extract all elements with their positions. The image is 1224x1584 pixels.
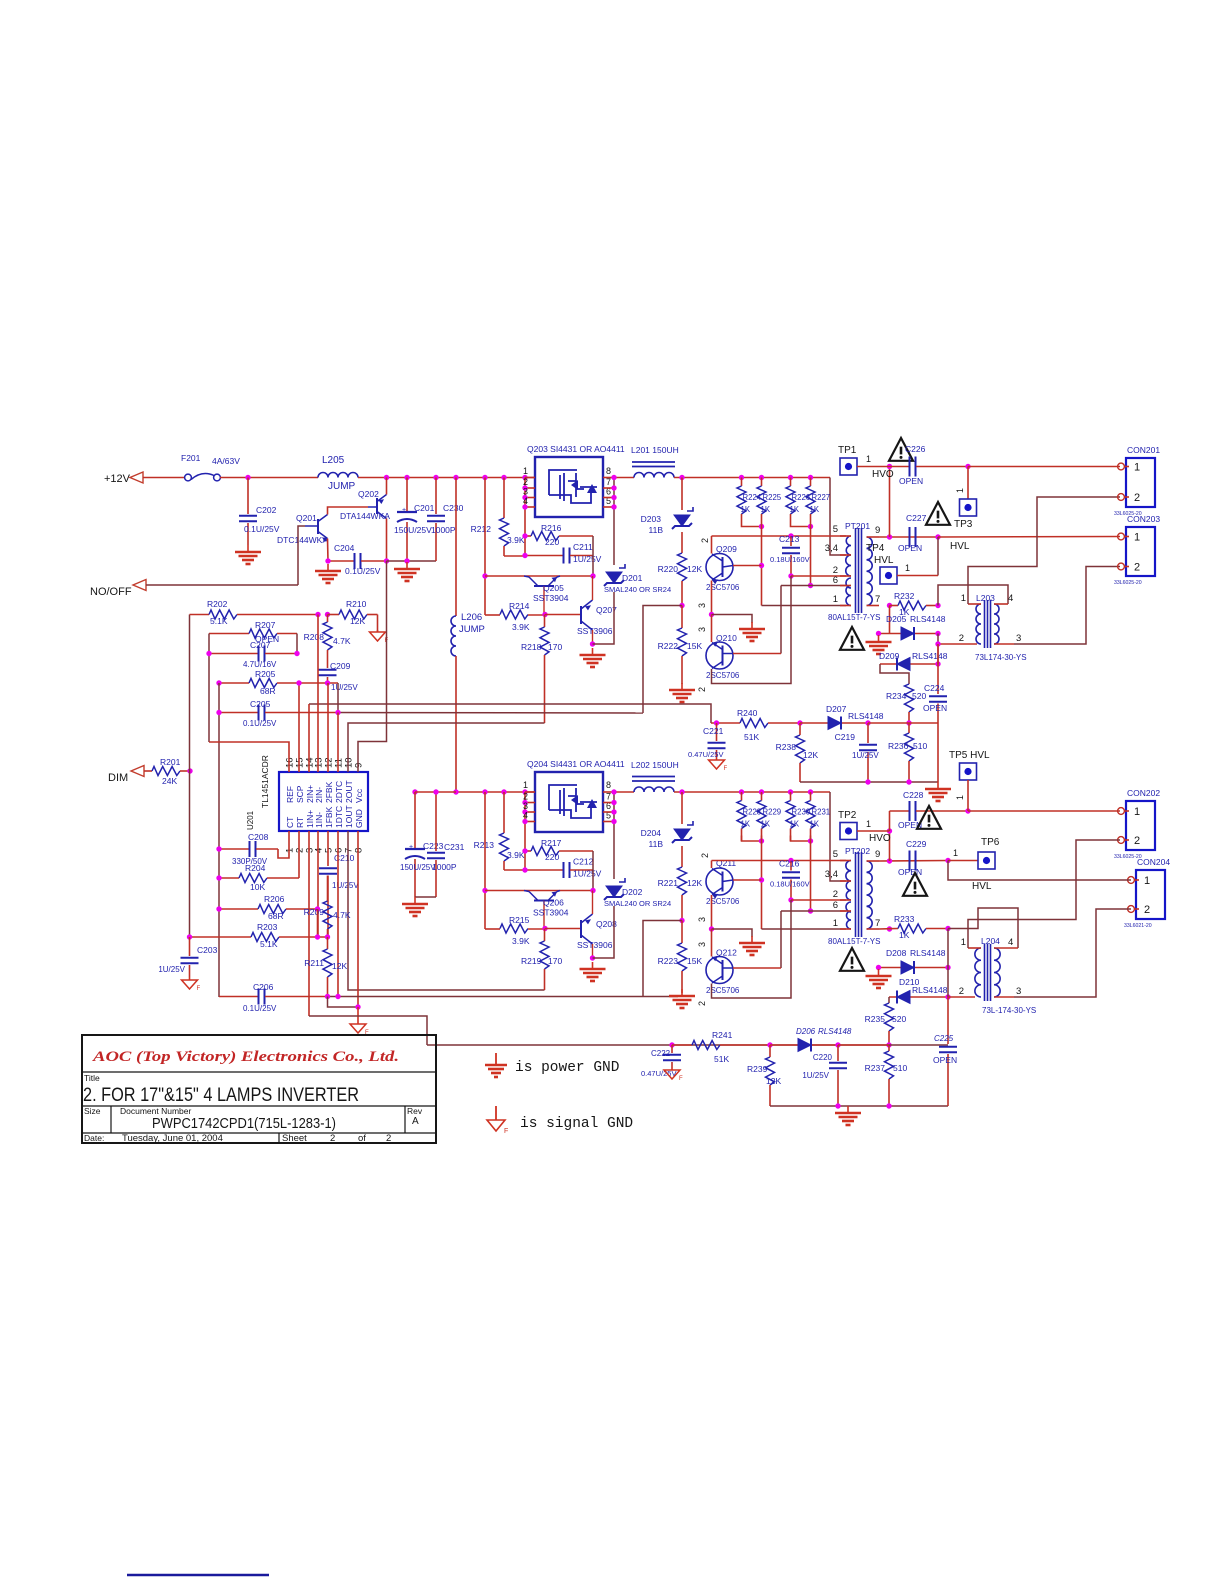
svg-text:2FBK: 2FBK xyxy=(324,781,334,803)
test point TP2 xyxy=(840,823,857,840)
svg-text:D202: D202 xyxy=(622,887,643,897)
resistor R234 xyxy=(905,684,914,712)
svg-text:1000P: 1000P xyxy=(431,525,456,535)
svg-text:C212: C212 xyxy=(573,857,594,867)
svg-text:R202: R202 xyxy=(207,599,228,609)
svg-text:1: 1 xyxy=(833,918,838,929)
ground below Q207 xyxy=(592,648,594,655)
node R202 right / pin13 col xyxy=(315,612,320,617)
wire TP2 to riser xyxy=(857,830,890,832)
svg-text:3,4: 3,4 xyxy=(825,543,838,554)
svg-text:1: 1 xyxy=(523,466,528,476)
input arrow +12V xyxy=(130,472,143,483)
svg-text:C219: C219 xyxy=(835,732,856,742)
node C220 bottom xyxy=(835,1103,840,1108)
svg-text:OPEN: OPEN xyxy=(899,476,923,486)
wire mid gnd tap xyxy=(712,615,753,624)
node railB-R229 xyxy=(759,789,764,794)
svg-text:68R: 68R xyxy=(260,686,276,696)
capacitor C212 xyxy=(525,869,563,871)
svg-text:10K: 10K xyxy=(250,882,265,892)
node C204 right xyxy=(384,558,389,563)
svg-text:RLS4148: RLS4148 xyxy=(912,651,948,661)
transformer L204 left winding xyxy=(975,948,981,997)
wire pin5 row xyxy=(712,535,847,537)
wire L203 pin2 row xyxy=(938,643,977,645)
wire left rail column x189 xyxy=(189,615,191,938)
node C208 left xyxy=(216,846,221,851)
resistor R208 xyxy=(327,615,329,623)
svg-text:R240: R240 xyxy=(737,708,758,718)
node C219 bottom xyxy=(865,779,870,784)
diode D206 xyxy=(770,1044,798,1046)
svg-text:CON203: CON203 xyxy=(1127,514,1160,524)
capacitor C228 OPEN xyxy=(890,810,910,812)
node HVL after C227 xyxy=(935,534,940,539)
node pin8 row xyxy=(355,1004,360,1009)
wire Q212 base stub xyxy=(733,967,781,969)
transformer L203 core xyxy=(984,600,986,648)
node R205 right corner xyxy=(337,683,339,713)
wire Q207 base xyxy=(545,614,581,616)
wire R231 col to pin6 rowB xyxy=(810,836,812,912)
warning triangle below C229 xyxy=(903,873,927,896)
svg-text:RLS4148: RLS4148 xyxy=(818,1027,852,1036)
svg-text:D206: D206 xyxy=(796,1027,816,1036)
svg-text:C227: C227 xyxy=(906,513,927,523)
svg-text:R231: R231 xyxy=(812,808,831,817)
svg-text:C206: C206 xyxy=(253,982,274,992)
svg-text:1: 1 xyxy=(1134,532,1140,544)
svg-text:520: 520 xyxy=(892,1014,906,1024)
wire rail to PT201 pin3-4 xyxy=(830,478,846,556)
node Q204 pin6 col xyxy=(611,809,616,814)
warning triangle below PT201 xyxy=(840,627,864,650)
wire Q201 emitter to C204 xyxy=(327,539,330,562)
svg-text:R217: R217 xyxy=(541,838,562,848)
node R239 top xyxy=(767,1042,772,1047)
node C205 right pin11 xyxy=(335,710,340,715)
svg-text:C220: C220 xyxy=(813,1053,833,1062)
Q204 pin stubs left xyxy=(525,791,535,793)
node railB-R228 xyxy=(739,789,744,794)
node pin15-R205 xyxy=(296,680,301,685)
svg-text:Sheet: Sheet xyxy=(282,1133,307,1144)
svg-text:4A/63V: 4A/63V xyxy=(212,456,240,466)
transistor Q209 xyxy=(706,554,733,581)
node Q204 pin4 xyxy=(522,819,527,824)
node Q203 pin4 xyxy=(522,504,527,509)
U201 pin14 wire 2IN+ xyxy=(308,704,310,772)
node pin9 riserB xyxy=(887,858,892,863)
svg-text:2: 2 xyxy=(1134,562,1140,574)
diode D208 xyxy=(901,961,914,974)
wire Q212 emitter return xyxy=(712,900,792,998)
svg-text:R239: R239 xyxy=(747,1064,768,1074)
node C205 left xyxy=(216,710,221,715)
svg-text:68R: 68R xyxy=(268,911,284,921)
svg-text:1U/25V: 1U/25V xyxy=(802,1071,829,1080)
U201 pin8 wire GND xyxy=(357,831,359,1007)
wire Q211 collector to pin5 rowB xyxy=(711,861,713,869)
wire D208-D210 col xyxy=(947,968,949,998)
wire fuse to L205 xyxy=(220,477,318,479)
svg-text:2: 2 xyxy=(386,1133,391,1144)
capacitor C206 xyxy=(219,996,258,998)
node C207 right xyxy=(294,651,299,656)
node railB-R215col xyxy=(482,789,487,794)
resistor R232 xyxy=(890,605,899,607)
node rail-D203 xyxy=(679,475,684,480)
svg-text:SST3906: SST3906 xyxy=(577,940,613,950)
svg-text:4: 4 xyxy=(1008,593,1013,604)
node R203-R211 xyxy=(325,934,330,939)
transformer L204 right winding xyxy=(994,948,1000,997)
U201 pin7 wire 1OUT xyxy=(348,831,545,990)
svg-text:C224: C224 xyxy=(924,683,945,693)
U201 pin2 wire RT xyxy=(298,831,300,878)
svg-text:R241: R241 xyxy=(712,1030,733,1040)
capacitor C227 OPEN xyxy=(909,527,911,547)
test point TP3 xyxy=(967,467,969,500)
node Q207 collector / D201 xyxy=(590,641,595,646)
resistor R214 xyxy=(485,614,500,616)
transformer PT202 right winding xyxy=(867,861,873,929)
node railB-pin1 xyxy=(522,789,527,794)
wire rail to L201 xyxy=(617,477,634,479)
svg-text:15K: 15K xyxy=(687,956,702,966)
svg-text:0.47U/25V: 0.47U/25V xyxy=(688,750,723,759)
node R205-C209-pin12 xyxy=(325,680,330,685)
node R215 right / Q208 base xyxy=(542,926,547,931)
U201 pin4 wire 1IN- xyxy=(317,831,319,937)
svg-text:8: 8 xyxy=(606,466,611,476)
wire R212 bottom to C211 row xyxy=(504,555,525,557)
node rail-pin1 xyxy=(522,475,527,480)
capacitor C208 xyxy=(219,848,249,850)
svg-text:R232: R232 xyxy=(894,591,915,601)
node C212 left xyxy=(522,867,527,872)
wire D207 row to R234 xyxy=(868,722,938,724)
title block frame xyxy=(82,1035,436,1143)
resistor R230 xyxy=(790,792,792,801)
capacitor C201 xyxy=(406,478,408,513)
svg-text:220: 220 xyxy=(545,852,559,862)
node railB-R231 xyxy=(808,789,813,794)
resistor R217 xyxy=(525,850,531,852)
test point TP5 xyxy=(960,763,977,780)
node C213 top xyxy=(788,533,793,538)
wire left col x219 xyxy=(218,683,220,997)
svg-text:C226: C226 xyxy=(905,444,926,454)
svg-text:L202 150UH: L202 150UH xyxy=(631,760,679,770)
wire HVL to CON203 pin1 xyxy=(938,536,1120,539)
svg-text:SST3904: SST3904 xyxy=(533,908,569,918)
node Q204 pin8 col xyxy=(611,789,616,794)
svg-text:Q210: Q210 xyxy=(716,633,737,643)
svg-text:0.1U/25V: 0.1U/25V xyxy=(345,566,381,576)
resistor R216 xyxy=(525,535,531,537)
svg-text:DTC144WKA: DTC144WKA xyxy=(277,535,328,545)
wire return row 782 xyxy=(800,781,938,783)
svg-text:Q209: Q209 xyxy=(716,544,737,554)
svg-text:SMAL240 OR SR24: SMAL240 OR SR24 xyxy=(604,585,671,594)
U201 pin13 wire 2IN- xyxy=(317,615,319,773)
svg-text:3: 3 xyxy=(1016,633,1021,644)
node R238 top xyxy=(797,720,802,725)
wire TP4 riser xyxy=(937,537,939,576)
capacitor C209 xyxy=(319,669,337,671)
wire R225 col to Q209 base xyxy=(761,521,763,606)
ground mid tap B xyxy=(751,936,753,943)
svg-text:12K: 12K xyxy=(766,1076,781,1086)
wire divider tap to U201 area xyxy=(643,606,682,714)
svg-text:L201 150UH: L201 150UH xyxy=(631,445,679,455)
ground on return row xyxy=(847,1106,849,1113)
wire TP5 stub xyxy=(967,780,969,811)
svg-text:2: 2 xyxy=(697,687,707,692)
wire Q210 base riser xyxy=(780,586,782,654)
svg-text:11B: 11B xyxy=(649,525,664,535)
svg-text:80AL15T-7-YS: 80AL15T-7-YS xyxy=(828,937,880,946)
wire Q208 base xyxy=(545,928,581,930)
transistor Q212 xyxy=(706,957,733,984)
svg-text:1DTC: 1DTC xyxy=(334,806,344,828)
node Q209-Q210 mid xyxy=(709,612,714,617)
node C204 left xyxy=(325,558,330,563)
U201 pin11 wire 2DTC xyxy=(337,713,339,773)
svg-text:Size: Size xyxy=(84,1106,101,1116)
node L203 pin2 row xyxy=(935,641,940,646)
wire mid gnd tap B xyxy=(712,929,753,937)
svg-text:R215: R215 xyxy=(509,915,530,925)
wire HVO to CON201 pin1 xyxy=(968,466,1120,468)
wire Q205 collector row xyxy=(485,575,593,577)
ground below D205 left xyxy=(878,635,880,642)
wire Q202 emitter to rail xyxy=(386,478,388,495)
node C201 bottom xyxy=(404,558,409,563)
svg-text:510: 510 xyxy=(913,741,927,751)
svg-text:3.9K: 3.9K xyxy=(512,936,530,946)
node C219 top xyxy=(865,720,870,725)
resistor R223 xyxy=(681,921,683,944)
svg-text:1U/25V: 1U/25V xyxy=(332,881,359,890)
svg-text:OPEN: OPEN xyxy=(923,703,947,713)
svg-text:Q205: Q205 xyxy=(543,583,564,593)
node railB-L206 xyxy=(453,789,458,794)
wire Q208 collector down xyxy=(592,944,594,958)
node Q211 base xyxy=(759,877,764,882)
node R233 right xyxy=(945,926,950,931)
svg-text:1: 1 xyxy=(905,563,910,573)
wire L201 to rail junction xyxy=(674,477,830,479)
wire Q212 base riser xyxy=(780,911,782,968)
svg-text:Tuesday, June 01, 2004: Tuesday, June 01, 2004 xyxy=(122,1133,223,1144)
wire D208 row xyxy=(879,967,949,969)
inductor L202 xyxy=(634,787,674,792)
svg-text:C229: C229 xyxy=(906,839,927,849)
svg-text:R208: R208 xyxy=(304,632,325,642)
wire Q206 collector row xyxy=(485,890,593,892)
svg-text:2: 2 xyxy=(523,477,528,487)
wire L203 pin3 to CON203 pin2 xyxy=(1014,567,1120,645)
wire D209 left to R234 xyxy=(880,664,909,684)
node R206 left xyxy=(216,906,221,911)
wire C228 riser xyxy=(889,811,891,831)
diode D205 xyxy=(901,627,914,640)
IC U201 box xyxy=(279,772,368,831)
wire D201 bottom link xyxy=(593,592,615,644)
resistor R209 xyxy=(327,876,329,902)
node Q203 pin8 col xyxy=(611,475,616,480)
svg-text:2DTC: 2DTC xyxy=(334,781,344,803)
svg-text:0.1U/25V: 0.1U/25V xyxy=(244,524,280,534)
node C222 top xyxy=(669,1042,674,1047)
wire Q209 base stub xyxy=(733,565,762,567)
node R206 right xyxy=(315,906,320,911)
resistor R212 xyxy=(503,478,505,519)
resistor R224 xyxy=(741,478,743,487)
svg-text:51K: 51K xyxy=(744,732,759,742)
node D205 right xyxy=(935,631,940,636)
capacitor C213 xyxy=(790,536,792,546)
ground at return row end xyxy=(937,782,939,789)
resistor R211 xyxy=(327,937,329,949)
wire rail2 xyxy=(427,1044,948,1046)
Q203 pin stubs left xyxy=(525,477,535,479)
svg-text:0.1U/25V: 0.1U/25V xyxy=(243,719,277,728)
svg-text:6: 6 xyxy=(833,575,838,586)
bracket R207-C207 right xyxy=(296,634,298,654)
svg-text:R214: R214 xyxy=(509,601,530,611)
svg-text:8: 8 xyxy=(606,780,611,790)
svg-text:+: + xyxy=(402,507,406,514)
wire C223-C231 gnd join xyxy=(415,896,436,898)
svg-text:3: 3 xyxy=(697,942,707,947)
svg-text:SST3904: SST3904 xyxy=(533,593,569,603)
wire R232 pin7 node xyxy=(887,603,892,608)
wire R233 to L204 pin4 bracket xyxy=(948,908,1018,948)
wire railB to PT202 pin3-4 xyxy=(830,792,846,881)
fuse F201 xyxy=(185,474,192,481)
L203 pin stubs xyxy=(968,603,981,605)
dual mosfet Q203 xyxy=(535,457,603,517)
svg-text:1K: 1K xyxy=(761,505,771,514)
node D210 right xyxy=(945,994,950,999)
svg-text:1U/25V: 1U/25V xyxy=(852,751,879,760)
svg-text:D205: D205 xyxy=(886,614,907,624)
svg-text:1: 1 xyxy=(1144,875,1150,887)
svg-text:RLS4148: RLS4148 xyxy=(912,985,948,995)
svg-text:RT: RT xyxy=(295,817,305,828)
input arrow DIM xyxy=(131,766,144,777)
svg-text:1FBK: 1FBK xyxy=(324,806,334,828)
svg-text:Q206: Q206 xyxy=(543,898,564,908)
wire railB col to Q206 row xyxy=(484,792,486,929)
svg-text:5.1K: 5.1K xyxy=(210,616,228,626)
svg-text:TP5 HVL: TP5 HVL xyxy=(949,750,990,761)
node Q209 base xyxy=(759,563,764,568)
node R220-R222 divider xyxy=(679,603,684,608)
wire R210 right to signal gnd xyxy=(377,615,379,633)
svg-text:Q202: Q202 xyxy=(358,489,379,499)
diode D201 (SMAL240) xyxy=(606,572,622,583)
svg-text:12K: 12K xyxy=(332,961,347,971)
resistor R201 xyxy=(144,770,152,772)
svg-text:1: 1 xyxy=(961,937,966,948)
svg-text:RLS4148: RLS4148 xyxy=(910,614,946,624)
node D208 right xyxy=(945,965,950,970)
svg-text:CON201: CON201 xyxy=(1127,445,1160,455)
node rail-C202 xyxy=(245,475,250,480)
node R237 bottom xyxy=(886,1103,891,1108)
resistor R206 xyxy=(219,908,258,910)
svg-text:220: 220 xyxy=(545,537,559,547)
svg-text:2. FOR 17"&15" 4 LAMPS INVERT: 2. FOR 17"&15" 4 LAMPS INVERTER xyxy=(83,1085,359,1106)
capacitor C211 xyxy=(525,555,563,557)
svg-text:3: 3 xyxy=(697,627,707,632)
node R232 right xyxy=(935,603,940,608)
svg-text:SST3906: SST3906 xyxy=(577,626,613,636)
wire PT201 pin6 row xyxy=(781,585,846,587)
node Q211-Q212 mid xyxy=(709,926,714,931)
node Q204 pin3 xyxy=(522,809,527,814)
svg-text:D204: D204 xyxy=(641,828,662,838)
svg-text:R209: R209 xyxy=(304,907,325,917)
wire 1IN+ row to rail xyxy=(309,1016,427,1045)
resistor R231 xyxy=(810,792,812,801)
svg-text:R223: R223 xyxy=(658,956,679,966)
wire interconnect row 704 xyxy=(309,704,711,723)
resistor R218 xyxy=(544,615,546,628)
wire C204 to C201 bottom xyxy=(387,560,437,562)
inductor L201 core xyxy=(632,461,675,463)
svg-text:C231: C231 xyxy=(444,842,465,852)
connector CON201 xyxy=(1126,458,1155,507)
ground below R222 xyxy=(681,683,683,690)
Q203 pin joiner column left xyxy=(524,478,526,556)
U201 pin1 wire CT xyxy=(278,831,289,858)
svg-text:HVO: HVO xyxy=(872,469,894,480)
svg-text:R220: R220 xyxy=(658,564,679,574)
svg-text:5: 5 xyxy=(833,524,838,535)
svg-text:2: 2 xyxy=(959,986,964,997)
ground below R223 with gnd row xyxy=(681,989,683,996)
test point TP4 xyxy=(880,567,897,584)
capacitor C223 xyxy=(414,792,416,849)
test point TP6 xyxy=(978,852,995,869)
node Q203 pin2 xyxy=(522,485,527,490)
wire TP4 pin xyxy=(897,575,938,577)
resistor R205 xyxy=(219,682,249,684)
svg-text:C205: C205 xyxy=(250,699,271,709)
svg-text:C210: C210 xyxy=(334,853,355,863)
svg-text:510: 510 xyxy=(893,1063,907,1073)
wire Q210 collector xyxy=(711,615,713,643)
resistor R215 xyxy=(485,928,500,930)
node C229 right xyxy=(945,858,950,863)
svg-text:D201: D201 xyxy=(622,573,643,583)
wire R240 row start xyxy=(711,722,740,724)
resistor R207 OPEN xyxy=(209,633,249,635)
wire D210 row xyxy=(889,996,948,998)
svg-text:9: 9 xyxy=(354,763,365,768)
inductor L205 xyxy=(318,473,358,478)
bracket R217-C212 right xyxy=(592,851,594,891)
svg-text:3.9K: 3.9K xyxy=(512,622,530,632)
svg-text:Q212: Q212 xyxy=(716,948,737,958)
node C207 left xyxy=(206,651,211,656)
